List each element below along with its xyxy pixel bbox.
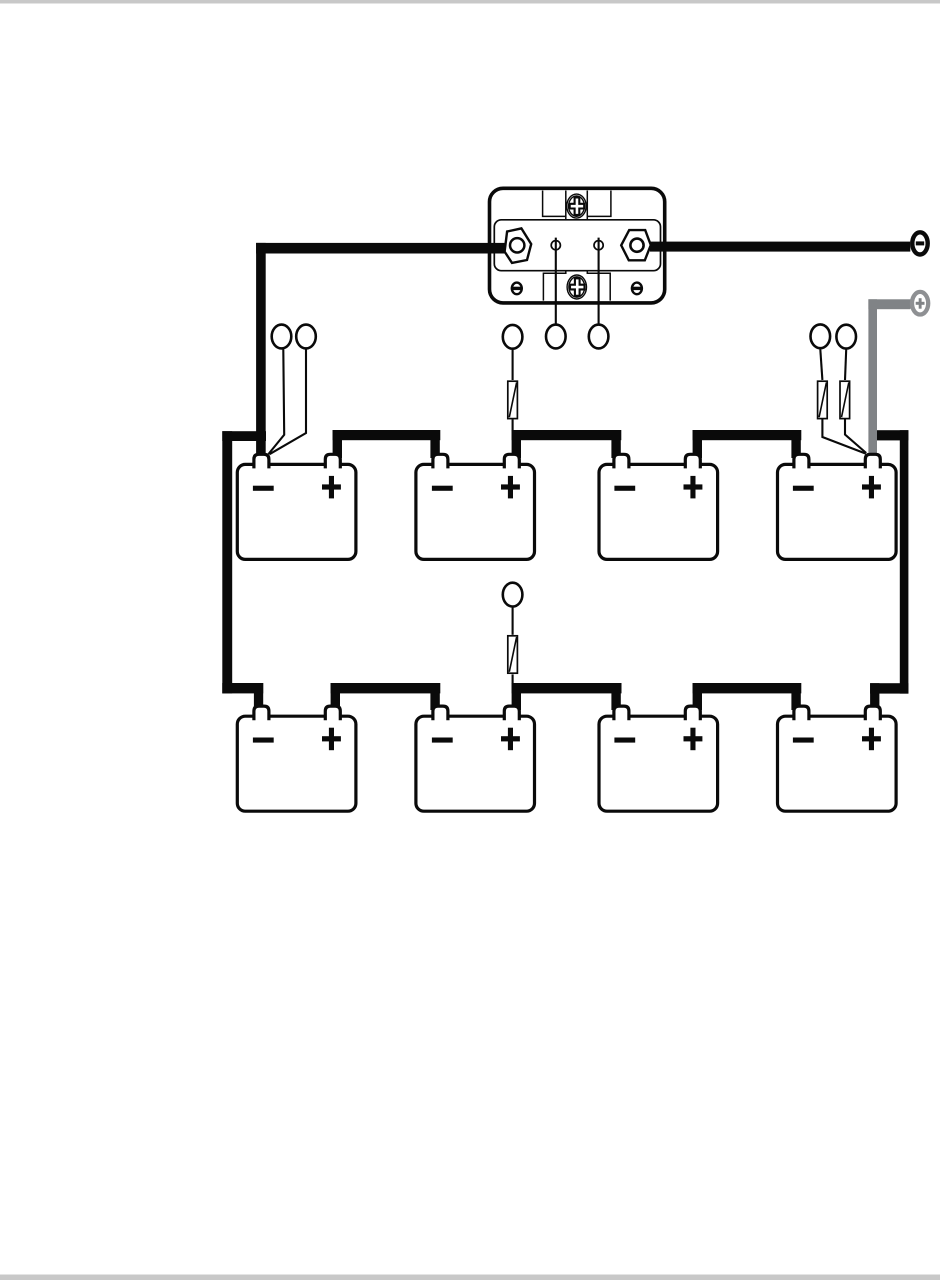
battery BT8 [778,706,897,811]
battery BT1 [237,454,356,559]
wire: fuse F1 to row1 bus [512,420,514,432]
wire: from ring terminal E1 to BT1 negative post [269,349,285,454]
wire: drop to BT1 positive post [333,430,342,458]
shunt U1 bus bar plate [494,220,660,271]
shunt U1 top mounting tab outline [543,191,566,301]
wire: row1 right elbow horizontal at BT4+ [872,430,908,440]
fuse F3 [840,381,850,418]
fuse F2 [818,381,828,418]
wire: ring E8 to fuse F4 [512,608,514,635]
battery BT2 [416,454,535,559]
battery BT4 [778,454,897,559]
wire: thick negative cable from shunt right terminal to negative output [650,242,910,252]
wire: ring E7 to fuse F3 [845,350,846,381]
wire: row2 link BT7+ to BT8- [693,683,802,693]
ring terminal E5 (right sense) [589,325,609,349]
shunt U1 bottom phillips screw [567,275,586,299]
ring terminal E4 (left sense) [546,325,566,349]
wire: drop to BT6 positive post [512,683,521,710]
wire: fuse F4 to row2 bus [512,674,514,684]
shunt U1 top mounting tab outline right [587,191,611,301]
ring terminal E8 [503,583,523,607]
shunt U1 body outer case [490,188,665,303]
wire: gray positive cable horizontal to positive output [868,299,910,309]
shunt U1 left sense terminal [551,241,560,250]
wire: drop to BT6 negative post [430,683,439,710]
wire: fuse F2 to BT4 positive post [822,419,865,454]
battery BT7 [599,706,718,811]
wire: left sense lead from shunt to ring terminal [555,238,557,325]
wire: ring E3 to fuse F1 [512,350,514,380]
wire: thick negative cable from shunt left terminal going left [256,243,504,254]
ring terminal E7 [836,325,856,349]
wire: drop to BT8 negative post [791,683,800,710]
top gray page strip [0,0,940,4]
wire: right vertical bus (BT4+ to BT8+) [900,430,909,693]
wire: drop to BT4 negative post [791,430,800,458]
shunt U1 left hex bolt [505,228,532,263]
wire: from ring terminal E2 to BT1 negative post [270,349,307,454]
wire: drop to BT3 positive post [693,430,702,458]
wire: right sense lead from shunt to ring terminal [598,238,600,325]
wire: top-left elbow horizontal [222,431,266,441]
battery BT3 [599,454,718,559]
wire: row2 link BT5+ to BT6- [331,683,441,693]
wire: row1 link BT2+ to BT3- [512,430,622,440]
wire: drop to BT2 negative post [430,430,439,458]
wire: drop to BT3 negative post [611,430,620,458]
wire: gray positive cable vertical down to BT4 positive post [868,299,877,456]
ring terminal E6 [811,324,831,348]
ring terminal E2 [296,325,316,349]
wire: drop to BT7 positive post [693,683,702,710]
wire: row1 link BT1+ to BT2- [333,430,441,440]
fuse F1 [508,381,518,418]
shunt U1 bottom-left slotted screw [512,283,522,295]
wire: row2 right elbow horizontal at BT8+ [870,683,908,693]
bottom gray page strip [0,1275,940,1280]
wire: fuse F3 to BT4 positive post [845,419,866,453]
ring terminal E1 [272,325,292,349]
wire: drop to BT2 positive post [512,430,521,458]
battery BT6 [416,706,535,811]
negative output terminal symbol [912,232,927,254]
wire: drop to BT8 positive post [870,683,879,710]
fuse F4 [508,636,518,673]
wire: drop from shunt cable down to battery BT1 negative post [256,243,266,458]
shunt U1 right hex bolt [621,230,651,260]
battery BT5 [237,706,356,811]
positive output terminal symbol [912,292,928,315]
wire: far-left vertical bus (BT1 neg to BT5 neg) [222,431,232,693]
ring terminal E3 [503,325,523,349]
wire: drop to battery BT5 negative post [254,683,263,710]
shunt U1 bottom-right slotted screw [632,283,642,295]
wire: ring E6 to fuse F2 [820,349,822,380]
wire: bottom-left elbow horizontal [222,683,263,693]
shunt U1 top phillips screw [567,194,586,218]
wire: drop to BT7 negative post [611,683,620,710]
wire: drop to BT5 positive post [331,683,340,710]
wire: row2 link BT6+ to BT7- [512,683,622,693]
shunt U1 right sense terminal [594,241,603,250]
wire: row1 link BT3+ to BT4- [693,430,802,440]
